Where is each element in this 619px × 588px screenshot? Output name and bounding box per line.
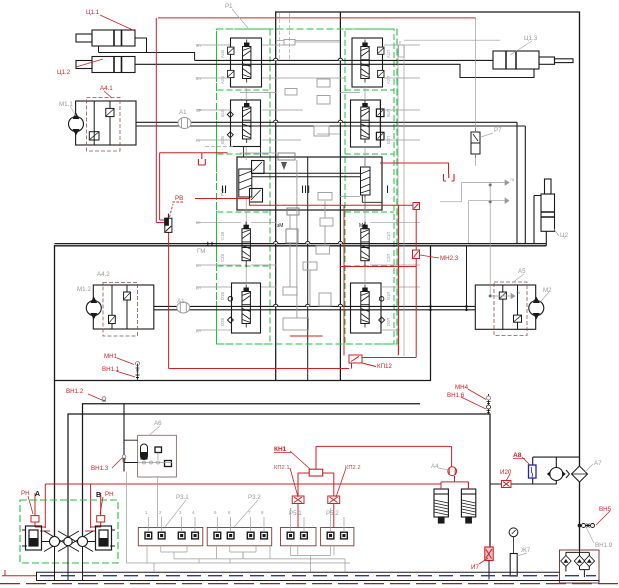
small gray boxes center column xyxy=(278,40,333,331)
wire A6 feed vertical xyxy=(123,404,125,472)
svg-text:М2: М2 xyxy=(543,287,552,294)
svg-text:А: А xyxy=(35,491,40,498)
red valve KP12 xyxy=(349,355,376,367)
svg-text:А4.1: А4.1 xyxy=(100,85,113,92)
red valve I7 xyxy=(485,547,493,561)
red valve PB xyxy=(165,214,172,233)
green enclosure right column xyxy=(345,29,394,344)
red valve I20 xyxy=(502,481,512,488)
svg-text:Ц1.1: Ц1.1 xyxy=(86,9,100,16)
cylinder Ц1.1 xyxy=(76,30,135,46)
svg-text:A1П: A1П xyxy=(386,50,391,58)
svg-text:И7: И7 xyxy=(471,564,479,571)
gray leader lines xyxy=(70,9,594,556)
section roman numerals xyxy=(221,184,389,196)
svg-text:КП2.1: КП2.1 xyxy=(274,465,290,471)
valve group P3.3 xyxy=(281,528,317,546)
red valve P5.1 xyxy=(292,496,304,504)
A8 blue box xyxy=(529,465,537,478)
svg-text:Ж7: Ж7 xyxy=(521,547,531,554)
node frame: main return line top and right xyxy=(275,12,580,549)
svg-text:2п: 2п xyxy=(196,43,201,48)
cylinder Ц2 xyxy=(541,179,555,231)
svg-text:Р5.1: Р5.1 xyxy=(289,510,302,517)
green section separators xyxy=(218,90,395,266)
svg-text:B2П: B2П xyxy=(386,136,391,144)
red pump pilots left unit xyxy=(31,516,39,522)
svg-text:та: та xyxy=(510,177,515,182)
manometer MH5 xyxy=(509,528,518,537)
svg-text:А1: А1 xyxy=(179,109,187,116)
tank red stub left xyxy=(2,570,36,576)
tiny black port labels xyxy=(277,223,366,229)
connectors MH2 BH1.1 xyxy=(136,362,140,381)
accumulator 2 xyxy=(461,489,475,523)
red line center bottom xyxy=(290,335,323,337)
svg-text:ГМ: ГМ xyxy=(197,248,205,255)
svg-text:C2П: C2П xyxy=(386,254,391,262)
M3 pump circuit xyxy=(490,457,588,484)
svg-text:дл: дл xyxy=(196,328,201,333)
wire bus row1 upper xyxy=(195,59,493,61)
pump group green box xyxy=(20,500,118,563)
svg-text:ВН1.1: ВН1.1 xyxy=(102,366,120,373)
wire bus row2 lower xyxy=(136,125,525,127)
svg-text:А4: А4 xyxy=(431,463,439,470)
svg-text:C1П: C1П xyxy=(386,232,391,240)
svg-text:Р5.2: Р5.2 xyxy=(326,510,339,517)
svg-text:сл: сл xyxy=(196,263,201,268)
wire bus row5 xyxy=(154,306,475,309)
green enclosure left column xyxy=(217,29,271,344)
wire cyl1 links xyxy=(99,38,195,60)
pump drive cross lines xyxy=(44,531,93,552)
svg-text:п: п xyxy=(399,40,401,45)
svg-text:Ц2: Ц2 xyxy=(560,232,569,239)
valve row5 left xyxy=(227,283,260,333)
svg-text:КП12: КП12 xyxy=(377,363,392,370)
svg-text:Р7: Р7 xyxy=(494,127,502,134)
pump unit B xyxy=(96,526,116,550)
svg-text:Ц1.3: Ц1.3 xyxy=(524,35,538,42)
gray pilot line network xyxy=(196,18,515,356)
green enclosure P1 outer xyxy=(217,29,398,344)
svg-text:Р3.1: Р3.1 xyxy=(176,494,189,501)
wire GM to row5 link xyxy=(466,246,468,310)
wire bus row2 upper xyxy=(136,121,517,123)
svg-text:D2B: D2B xyxy=(220,318,225,326)
wire bus row1 lower xyxy=(135,64,534,77)
svg-text:В: В xyxy=(96,492,101,499)
wire jump arcs xyxy=(274,58,343,306)
red control network xyxy=(156,18,475,369)
svg-text:гп: гп xyxy=(196,138,200,143)
connector BH1.2 xyxy=(102,397,106,404)
svg-text:2л: 2л xyxy=(196,76,201,81)
bottom dark red dashed border xyxy=(0,583,619,585)
svg-text:ВН1.2: ВН1.2 xyxy=(66,388,84,395)
svg-text:ВН1.9: ВН1.9 xyxy=(595,542,613,549)
A6 block xyxy=(124,435,176,477)
svg-text:М1.2: М1.2 xyxy=(77,286,91,293)
gray dashed rails top center xyxy=(205,13,290,147)
wire cyl2 piping xyxy=(534,196,546,246)
red valve KP1 xyxy=(309,469,323,476)
svg-text:РВ: РВ xyxy=(175,195,183,202)
pump unit A5 with motor M2 xyxy=(475,282,544,336)
wire bus GM xyxy=(55,244,547,537)
svg-text:КН1: КН1 xyxy=(274,446,287,453)
pump unit A4.2 with motor M1.2 xyxy=(86,283,154,337)
svg-text:А8: А8 xyxy=(513,452,522,459)
valve GM row4 right xyxy=(361,221,369,267)
red coupler A4 xyxy=(448,467,457,476)
svg-text:ВН1.6: ВН1.6 xyxy=(447,392,465,399)
bleed valve BH5 on return xyxy=(578,524,594,528)
svg-text:ВН5: ВН5 xyxy=(599,506,612,513)
filter G7 xyxy=(510,554,517,577)
svg-text:B2B: B2B xyxy=(220,136,225,144)
svg-text:А5: А5 xyxy=(518,268,526,275)
wire pump drains to tank xyxy=(55,546,83,580)
wire center vertical right xyxy=(339,12,341,381)
svg-text:КП2.2: КП2.2 xyxy=(345,465,361,471)
valve P1 row1 left xyxy=(228,38,262,87)
tiny gray rail labels xyxy=(196,40,521,333)
valve P1 row1 right xyxy=(352,38,384,87)
svg-text:A2П: A2П xyxy=(386,76,391,84)
gray manifold below groups xyxy=(127,472,351,572)
node junction dots row5 xyxy=(429,305,468,311)
svg-text:A1B: A1B xyxy=(220,50,225,58)
coupler A1 top xyxy=(178,118,191,129)
pump junction circles xyxy=(50,537,60,547)
svg-text:РН: РН xyxy=(105,491,114,498)
wire GM notch xyxy=(208,242,212,246)
svg-text:МН1: МН1 xyxy=(104,353,118,360)
tank outline xyxy=(37,572,600,582)
svg-text:А7: А7 xyxy=(594,460,602,467)
svg-text:А1: А1 xyxy=(177,298,185,305)
svg-text:SP: SP xyxy=(196,108,202,113)
cylinder Ц1.2 xyxy=(76,57,135,73)
gray stubs above groups xyxy=(148,477,344,532)
accumulator 1 xyxy=(434,489,448,523)
valve row5 right xyxy=(351,283,385,333)
filters box bottom right xyxy=(560,549,600,583)
svg-text:A2B: A2B xyxy=(220,76,225,84)
svg-text:Р3.2: Р3.2 xyxy=(248,494,261,501)
coupler A1 bottom xyxy=(177,302,190,313)
wire center vertical middle xyxy=(307,157,309,381)
svg-text:D1П: D1П xyxy=(386,292,391,300)
svg-text:зМ: зМ xyxy=(277,223,283,229)
svg-text:ВН1.3: ВН1.3 xyxy=(91,465,109,472)
svg-text:РН: РН xyxy=(21,490,30,497)
svg-text:B1П: B1П xyxy=(386,109,391,117)
connectors MH4 BH1.7 xyxy=(487,396,491,413)
svg-text:МН2.3: МН2.3 xyxy=(440,255,459,262)
red valve P5.2 xyxy=(328,496,340,504)
svg-text:И20: И20 xyxy=(500,469,512,476)
wire center vertical left xyxy=(275,12,277,381)
red valve x416 lower xyxy=(413,250,420,259)
valve P1 row2 left xyxy=(227,100,260,147)
valve GM row4 left xyxy=(242,221,250,267)
svg-text:D1B: D1B xyxy=(220,292,225,300)
valve P7 xyxy=(471,128,480,158)
svg-text:дп: дп xyxy=(196,285,201,290)
svg-text:C1B: C1B xyxy=(220,232,225,240)
wire right risers to GM bus xyxy=(517,122,525,244)
valve group P3.2 xyxy=(207,528,272,546)
svg-text:Мт: Мт xyxy=(359,223,366,229)
svg-text:М1.1: М1.1 xyxy=(59,101,73,108)
red line row4 bottom xyxy=(340,266,416,268)
wire pump stubs xyxy=(42,541,96,543)
svg-text:III: III xyxy=(301,184,310,196)
labels A B at pumps xyxy=(35,491,101,499)
svg-text:B1B: B1B xyxy=(220,109,225,117)
valve group P3.4 xyxy=(321,528,354,546)
filter A7 xyxy=(572,466,588,482)
pump M3 xyxy=(550,468,563,481)
svg-text:А4.2: А4.2 xyxy=(97,271,110,278)
red valve x416 upper xyxy=(413,203,420,210)
cylinder Ц1.3 xyxy=(493,51,573,69)
pump unit A4.1 with motor M1.1 xyxy=(69,98,137,152)
valve P1 row2 right xyxy=(351,100,385,147)
wire box bottom xyxy=(55,246,431,381)
pump unit A xyxy=(22,526,42,550)
wire stub MH3 connectors xyxy=(488,394,490,414)
svg-text:D2П: D2П xyxy=(386,318,391,326)
svg-text:Ц1.2: Ц1.2 xyxy=(57,69,71,76)
red network bottom xyxy=(35,446,468,531)
red pump pilots right unit xyxy=(97,516,105,522)
wire line y414 xyxy=(68,414,490,547)
svg-text:Р1: Р1 xyxy=(225,3,233,10)
svg-text:C2B: C2B xyxy=(220,254,225,262)
wire line y404 xyxy=(83,404,421,537)
valve group P3.1 xyxy=(138,528,203,546)
connector BH1.3 xyxy=(122,455,126,461)
svg-text:сп: сп xyxy=(196,220,200,225)
svg-text:I: I xyxy=(386,184,389,196)
section band II III I xyxy=(237,147,382,210)
tank blue dashed line xyxy=(40,575,596,577)
svg-text:А6: А6 xyxy=(154,420,162,427)
red accumulator feeds xyxy=(441,482,468,489)
svg-text:II: II xyxy=(221,184,227,196)
svg-text:МН4: МН4 xyxy=(455,384,469,391)
